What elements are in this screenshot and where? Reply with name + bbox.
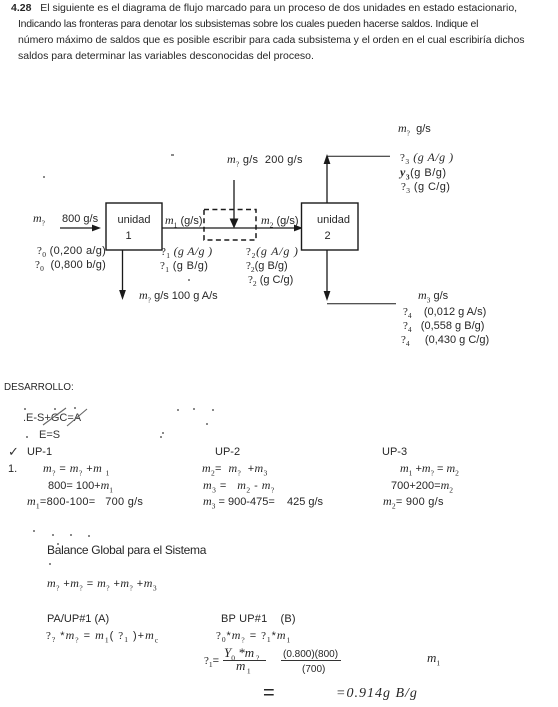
- label ?4 (0,430 g C/g): [401, 335, 489, 346]
- label 800 g/s: [62, 214, 98, 225]
- unit 2 top output arrow: [324, 154, 331, 203]
- label m1 (g/s): [165, 215, 202, 227]
- fraction 1 denominator m1: [236, 660, 252, 673]
- label ?3 (g C/g): [401, 182, 450, 193]
- dot left of E=S: [26, 436, 28, 438]
- eq UP1 row3: [27, 496, 143, 508]
- top output leader line: [327, 155, 390, 157]
- unit 1 bottom output arrow: [119, 250, 126, 300]
- label ?2 (g A/g): [246, 246, 299, 258]
- label m? g/s top right: [398, 123, 431, 135]
- PA/UP#1 (A) heading: [47, 614, 109, 625]
- problem statement paragraph: [11, 0, 524, 64]
- unit 2 box: [302, 203, 359, 250]
- handwriting dots row 1: [24, 408, 26, 410]
- eq UP3 row2: [391, 480, 453, 492]
- feed arrow into junction (200 g/s): [230, 180, 239, 229]
- eq UP2 row2: [203, 480, 275, 492]
- label ?4 (0,012 g A/s): [403, 307, 486, 318]
- fraction 2 numerator (0.800)(800): [283, 649, 338, 660]
- faint pen dot above feed junction: [171, 154, 174, 156]
- m1 right: [427, 652, 440, 665]
- eq UP2 row1: [202, 463, 268, 475]
- BP UP#1 (B) heading: [221, 614, 296, 625]
- label ?1 (g A/g): [161, 246, 212, 258]
- fraction 2 denominator (700): [302, 664, 325, 675]
- dashed subsystem boundary box: [204, 210, 256, 241]
- UP-3 heading: [382, 447, 407, 458]
- dots above Balance Global: [33, 530, 35, 532]
- final result: [336, 688, 418, 699]
- unit 2 number: [299, 231, 356, 242]
- checkmark: [8, 446, 19, 457]
- eq UP3 row1: [400, 463, 459, 475]
- fraction 1 bar: [223, 660, 266, 661]
- label ?2 (g B/g): [246, 261, 288, 272]
- label y3 (g B/g): [400, 167, 447, 179]
- faint pen dot below ?1 labels: [188, 279, 190, 281]
- eq BP: [216, 630, 295, 642]
- bottom output leader line: [327, 303, 396, 305]
- label ?0 (0,800 b/g): [35, 260, 106, 271]
- feed wire arrow into unit 1: [60, 225, 101, 232]
- eq UP2 row3: [203, 496, 323, 508]
- unit 1 label: [106, 215, 162, 226]
- general balance equation crossed out: [23, 413, 81, 424]
- label m3 g/s: [418, 290, 448, 302]
- dot above global equation: [49, 563, 51, 565]
- fraction 1 numerator Y0*m?: [224, 647, 259, 659]
- unit 1 number: [106, 231, 151, 242]
- Balance Global heading: [47, 545, 206, 556]
- item number 1.: [8, 464, 17, 475]
- DESARROLLO heading: [4, 382, 74, 393]
- unit 2 label: [305, 215, 362, 226]
- label m? g/s 100 g A/s: [139, 290, 218, 302]
- eq UP1 row2: [48, 480, 113, 492]
- faint pen dot near diagram feed: [43, 176, 45, 178]
- final =: [263, 683, 275, 703]
- label m? g/s 200 g/s: [227, 154, 303, 166]
- reduced balance E=S: [39, 430, 60, 441]
- global balance equation: [47, 578, 157, 590]
- label ?3 (g A/g): [400, 152, 454, 164]
- eq ?1 = fraction: [204, 656, 219, 667]
- fraction 2 bar: [281, 660, 341, 661]
- eq UP1 row1: [43, 463, 113, 475]
- label m2 (g/s): [261, 215, 298, 227]
- unit 2 bottom output arrow: [324, 250, 331, 301]
- label ?1 (g B/g): [160, 261, 208, 272]
- UP-1 heading: [27, 447, 52, 458]
- UP-2 heading: [215, 447, 240, 458]
- unit 1 box: [106, 203, 162, 250]
- label m? feed: [33, 213, 45, 224]
- label ?0 (0,200 a/g): [37, 246, 106, 257]
- eq PA: [46, 630, 159, 642]
- eq UP3 row3: [383, 496, 444, 508]
- label ?2 (g C/g): [248, 275, 293, 286]
- label ?4 (0,558 g B/g): [403, 321, 484, 332]
- wire unit1 to unit2: [162, 225, 303, 232]
